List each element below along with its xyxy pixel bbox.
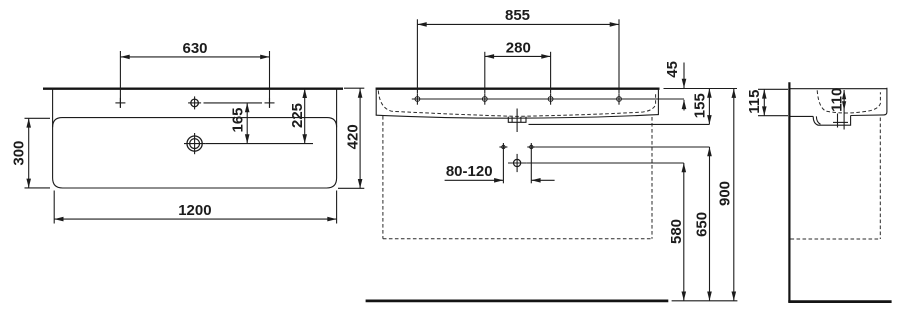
front view: basin top thick line <box>376 87 660 89</box>
plan view: left cross mark <box>115 98 125 108</box>
svg-text:115: 115 <box>746 89 763 113</box>
svg-text:300: 300 <box>10 141 27 166</box>
side view: wall line <box>788 82 790 302</box>
front view: fixing hole line to 650 dim <box>535 146 709 148</box>
svg-text:900: 900 <box>716 181 733 206</box>
svg-text:580: 580 <box>668 219 685 244</box>
dimension 165 <box>246 103 248 144</box>
dimension 580 <box>683 163 685 301</box>
front view: drain outlet box <box>508 117 526 123</box>
dimension 80-120 <box>445 179 555 181</box>
svg-text:225: 225 <box>289 103 306 128</box>
dimension 855 <box>417 19 619 93</box>
front view: fixing hole drop lines <box>503 151 531 183</box>
front view: basin left edge <box>375 88 377 116</box>
dimension 225 <box>304 89 306 144</box>
side view: basin right edge <box>884 88 887 115</box>
dimension 650 <box>709 147 711 301</box>
svg-text:280: 280 <box>506 40 531 57</box>
svg-text:630: 630 <box>182 40 207 57</box>
dimension 110 <box>842 90 846 130</box>
plan view: drain extension line to right <box>205 143 313 145</box>
plan view: inner bowl outline <box>53 118 337 128</box>
svg-text:155: 155 <box>691 93 708 118</box>
plan view: wall back edge thick line <box>43 87 343 89</box>
plan view: basin outer rim outline <box>53 88 337 188</box>
front view: wall fixing hole left <box>499 143 507 151</box>
side view: siphon recess inner lip <box>816 116 820 124</box>
front view: siphon line to 580 dim <box>526 162 684 164</box>
front view: basin right edge <box>657 88 659 115</box>
svg-text:45: 45 <box>664 61 681 78</box>
svg-text:110: 110 <box>828 88 845 112</box>
dimension 1200 <box>54 191 336 224</box>
svg-text:855: 855 <box>505 7 530 24</box>
dimension 630 <box>120 51 269 108</box>
side view: floor thick line <box>788 300 891 303</box>
front view: drain centre line <box>516 109 518 133</box>
side view: basin bottom right portion <box>851 114 885 117</box>
plan view: line from faucet to right cross <box>204 102 263 104</box>
dimension 280 <box>485 52 551 93</box>
side view: hidden bowl dashed <box>817 90 880 113</box>
side view: basin top edge <box>791 88 887 90</box>
svg-text:165: 165 <box>229 107 246 132</box>
front view: floor thick line <box>366 300 669 303</box>
front view: tap hole 1 <box>415 93 420 104</box>
dimension 115 <box>758 89 788 115</box>
front view: tap hole 3 <box>548 93 553 104</box>
dimension 45 <box>683 63 685 111</box>
dimension 300 <box>25 118 51 188</box>
front view: tap hole 2 <box>482 93 487 104</box>
dimension 900 <box>733 89 735 301</box>
plan view: faucet hole symbol <box>188 96 201 109</box>
front view: floor extension thin line <box>672 300 738 302</box>
plan view: drain hole symbol <box>184 133 205 154</box>
svg-text:80-120: 80-120 <box>446 163 493 180</box>
front view: hidden cabinet dashed outline <box>383 116 652 239</box>
front view: hidden inner bowl dashed <box>378 91 655 117</box>
svg-text:1200: 1200 <box>178 202 211 219</box>
front view: drain extension line to right <box>529 123 710 125</box>
plan view: right cross mark <box>265 98 275 108</box>
side view: hidden cabinet dashed outline <box>791 118 881 240</box>
front view: tap hole centre line <box>412 98 684 100</box>
front view: siphon centre cross <box>508 154 526 172</box>
svg-text:420: 420 <box>344 124 361 149</box>
dimension 155 <box>664 89 738 125</box>
side view: siphon recess step <box>813 116 850 126</box>
front view: tap hole 4 <box>617 93 622 104</box>
svg-text:650: 650 <box>693 212 710 237</box>
side view: drain pipe hidden edge <box>837 114 839 128</box>
front view: basin bottom edge <box>376 115 659 119</box>
side view: basin bottom left portion <box>791 115 814 117</box>
side view: drain cross arm <box>833 121 848 123</box>
dimension 420 <box>338 88 364 188</box>
front view: wall fixing hole right <box>527 143 535 151</box>
